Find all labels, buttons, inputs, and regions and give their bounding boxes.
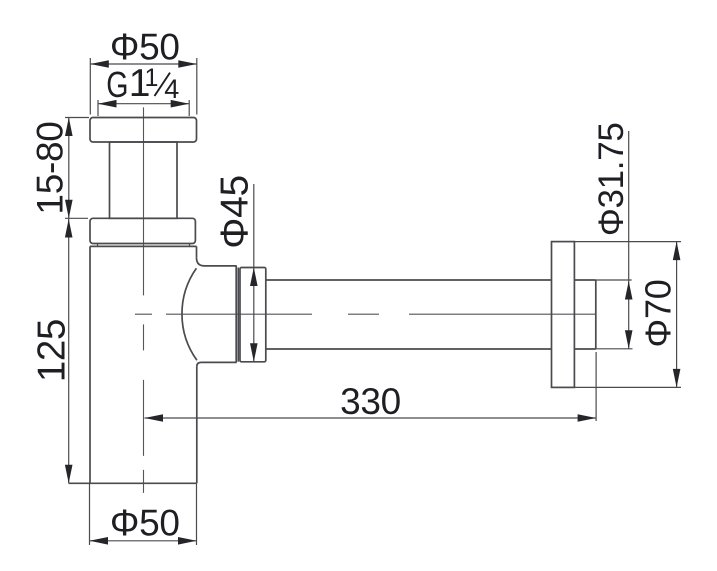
pipe end bottom edge [574, 348, 595, 350]
svg-text:15-80: 15-80 [30, 121, 71, 214]
joint seam line [90, 245, 197, 247]
svg-text:1: 1 [145, 64, 159, 92]
dim Phi50 bottom: left extension line [89, 483, 91, 545]
dim Phi70: bottom extension line [574, 386, 681, 388]
dim Phi50 top: left extension line [89, 58, 91, 115]
arrow Phi45 bottom [250, 343, 258, 362]
dim Phi50 top: dimension line [90, 63, 197, 65]
centerline horizontal (pipe axis) [135, 313, 596, 315]
fraction slash of G 1 1/4 [155, 73, 171, 96]
dim Phi70: top extension line [574, 241, 681, 243]
centerline vertical (body axis) [143, 107, 145, 493]
dim G1-1/4: left extension line [97, 100, 99, 116]
dim 330: right extension line [595, 352, 597, 421]
arrow Phi50 bottom left [90, 537, 109, 545]
arrow 125 top [65, 219, 73, 238]
svg-text:Φ70: Φ70 [638, 280, 679, 348]
arrow Phi31.75 top [625, 281, 633, 300]
dim 330: dimension line [145, 417, 597, 419]
pipe top edge [266, 279, 552, 281]
arrow G1-1/4 left [98, 100, 117, 108]
arrow G1-1/4 right [171, 100, 190, 108]
dim Phi45: dimension line [253, 184, 255, 362]
dim G1-1/4: dimension line [98, 103, 189, 105]
arrow 330 left [145, 414, 164, 422]
dim 15-80: dimension line [68, 118, 70, 219]
pipe bottom edge [266, 348, 552, 350]
svg-text:330: 330 [340, 381, 401, 422]
dim G1-1/4: right extension line [188, 100, 190, 116]
arrow Phi31.75 bottom [625, 330, 633, 349]
wall flange [552, 242, 575, 388]
dim Phi31.75: bottom extension line [596, 348, 633, 350]
arrow Phi45 top [250, 268, 258, 287]
outlet nut [240, 268, 266, 362]
arrow 330 right [578, 414, 597, 422]
joint tick right [189, 244, 191, 247]
svg-text:Φ50: Φ50 [110, 503, 180, 544]
svg-text:Φ45: Φ45 [213, 175, 256, 249]
inlet flange (top nut) [90, 118, 197, 143]
dim Phi50 bottom: right extension line [196, 483, 198, 545]
lock flange [90, 218, 195, 243]
pipe end top edge [574, 279, 595, 281]
svg-text:G: G [106, 64, 128, 105]
neck tube [110, 142, 178, 218]
svg-text:125: 125 [31, 319, 74, 382]
svg-text:Φ31.75: Φ31.75 [592, 122, 631, 236]
washer right edge [237, 268, 239, 362]
arrow 125 bottom [65, 465, 73, 484]
dim Phi70: dimension line [676, 242, 678, 388]
arrow Phi50 bottom right [178, 537, 197, 545]
outlet bottom shoulder [197, 362, 237, 366]
arrow Phi50 top right [178, 60, 197, 68]
outlet dome arc [182, 268, 197, 360]
dim 15-80: bottom extension line [65, 217, 88, 219]
washer left edge [235, 266, 237, 363]
arrow Phi70 top [673, 242, 681, 261]
joint tick left [97, 244, 99, 247]
dim Phi50 bottom: dimension line [90, 540, 197, 542]
trap body [69, 246, 197, 483]
outlet top shoulder [197, 258, 237, 266]
arrow 15-80 bottom [65, 200, 73, 219]
arrow Phi70 bottom [673, 369, 681, 388]
dim 125: dimension line [68, 218, 70, 483]
arrow Phi50 top left [90, 60, 109, 68]
pipe end cap [595, 280, 597, 349]
dim Phi50 top: right extension line [196, 58, 198, 115]
dim Phi31.75: top extension line [596, 279, 632, 281]
dim Phi31.75: dimension line [628, 131, 630, 349]
dim 15-80: top extension line [65, 117, 89, 119]
arrow 15-80 top [65, 118, 73, 137]
